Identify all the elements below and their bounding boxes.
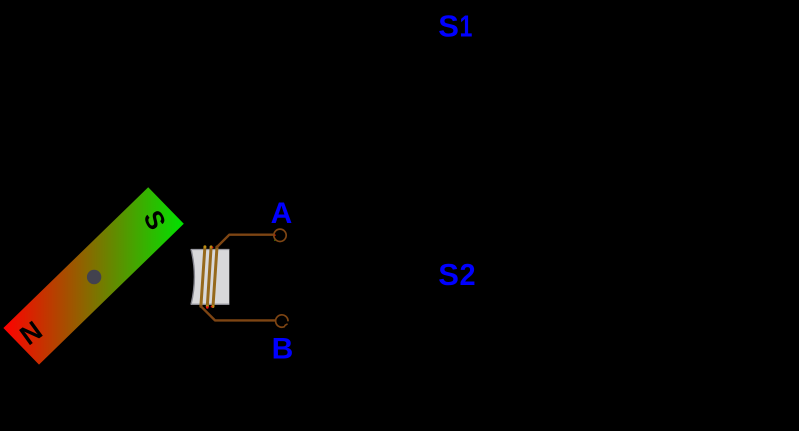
svg-text:A: A [271,197,293,230]
svg-text:S: S [438,9,459,44]
svg-text:B: B [272,332,294,365]
svg-text:1: 1 [460,9,473,44]
svg-text:S: S [438,257,459,292]
svg-text:2: 2 [460,257,476,292]
